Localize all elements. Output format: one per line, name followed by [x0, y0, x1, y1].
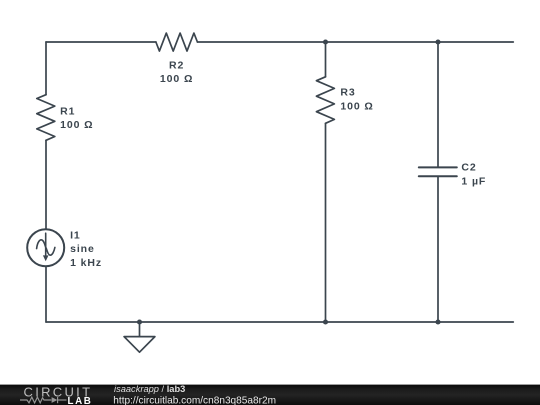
svg-text:100 Ω: 100 Ω: [340, 101, 373, 113]
svg-text:C2: C2: [461, 161, 476, 173]
wire right vertical upper: [437, 42, 439, 167]
svg-text:100 Ω: 100 Ω: [60, 119, 93, 131]
current source I1 arrowhead: [43, 255, 49, 261]
svg-text:http://circuitlab.com/cn8n3q85: http://circuitlab.com/cn8n3q85a8r2m: [113, 395, 276, 405]
logo diode bar: [57, 397, 59, 403]
node at C2 bottom junction: [435, 319, 440, 324]
logo diode triangle: [52, 397, 58, 403]
capacitor C2 bottom plate: [419, 175, 457, 177]
node at R3 bottom junction: [323, 319, 328, 324]
ground stem: [139, 322, 141, 337]
svg-text:R2: R2: [169, 59, 184, 71]
svg-text:LAB: LAB: [68, 396, 93, 405]
current source I1 sine: [37, 240, 55, 255]
svg-text:R1: R1: [60, 105, 75, 117]
wire top-left horizontal: [46, 41, 156, 43]
wire middle vertical upper: [325, 42, 327, 77]
resistor R2: [156, 33, 198, 51]
node at R2-R3 top junction: [323, 39, 328, 44]
logo squiggle wire: [20, 397, 67, 403]
capacitor C2 top plate: [419, 166, 457, 168]
logo wire after diode: [58, 399, 67, 401]
node at C2 top junction: [435, 39, 440, 44]
wire middle vertical lower: [325, 123, 327, 322]
svg-text:I1: I1: [70, 230, 81, 242]
resistor R1: [37, 95, 55, 141]
svg-text:1 µF: 1 µF: [461, 176, 486, 188]
current source I1 arrow line: [45, 233, 47, 256]
svg-text:R3: R3: [340, 87, 355, 99]
svg-text:1 kHz: 1 kHz: [70, 257, 102, 269]
wire left vertical lower: [45, 266, 47, 322]
svg-text:100 Ω: 100 Ω: [160, 73, 193, 85]
node at ground junction: [137, 319, 142, 324]
svg-text:sine: sine: [70, 243, 95, 255]
ground triangle: [124, 337, 155, 353]
wire top-right horizontal: [197, 41, 513, 43]
resistor R3: [316, 77, 334, 124]
wire bottom horizontal: [46, 321, 513, 323]
svg-text:isaackrapp / lab3: isaackrapp / lab3: [114, 384, 185, 394]
wire left vertical middle: [45, 140, 47, 229]
wire right vertical lower: [437, 176, 439, 322]
current source I1 circle: [27, 229, 64, 266]
wire left vertical upper: [45, 42, 47, 95]
